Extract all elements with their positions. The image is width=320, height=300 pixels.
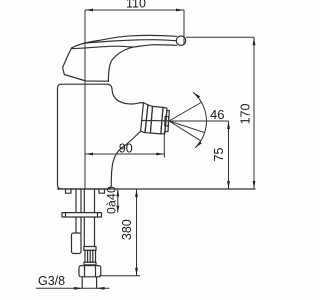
svg-text:90: 90 [119,142,133,156]
svg-text:380: 380 [120,219,134,240]
svg-text:G3/8: G3/8 [38,274,65,288]
svg-text:170: 170 [239,104,253,125]
svg-text:46: 46 [210,107,224,122]
svg-text:0à40: 0à40 [105,186,119,214]
svg-text:75: 75 [212,148,226,162]
svg-text:110: 110 [126,0,146,11]
